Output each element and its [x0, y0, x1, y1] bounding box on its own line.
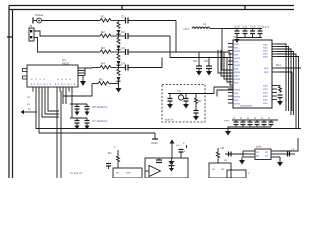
wire U2 right mid1 — [277, 67, 301, 69]
wire U4 in — [225, 153, 243, 155]
svg-text:111111: 111111 — [56, 89, 73, 93]
svg-text:C9: C9 — [204, 59, 208, 63]
ground ladder — [116, 84, 122, 93]
svg-text:Y1: Y1 — [177, 89, 181, 93]
module U1 — [23, 65, 79, 87]
U4 left pins — [243, 151, 255, 157]
box B opamp block — [145, 158, 188, 178]
wire bundle v3 — [224, 52, 233, 79]
wire U2 right bus r1 — [277, 44, 286, 111]
capacitor C14 — [278, 95, 283, 101]
capacitor C29 — [280, 152, 295, 157]
svg-text:C7 10uF/xx: C7 10uF/xx — [92, 119, 108, 123]
svg-text:C2: C2 — [121, 30, 125, 34]
svg-text:xxx: xxx — [234, 81, 239, 85]
border zone tick top 1 — [121, 6, 123, 10]
svg-text:+x: +x — [176, 143, 180, 147]
border frame top inner — [9, 9, 294, 11]
svg-text:xx xxx xx: xx xxx xx — [70, 171, 83, 175]
capacitor C22 — [262, 120, 267, 127]
svg-text:C1: C1 — [121, 15, 125, 19]
wire U2 right bus r6 — [277, 57, 299, 129]
svg-text:xx: xx — [28, 107, 32, 111]
box D — [227, 170, 246, 178]
svg-text:R2: R2 — [101, 30, 105, 34]
dashed box crystal — [162, 85, 205, 123]
power flag PF1 — [152, 133, 158, 139]
capacitor C18 — [234, 120, 239, 127]
capacitor C12 — [250, 29, 255, 38]
power arrow up — [170, 140, 175, 159]
wire U2 right bus r5 — [277, 54, 296, 129]
resistor R9 — [217, 148, 220, 163]
resistor R3 — [100, 50, 119, 54]
svg-text:J1: J1 — [29, 24, 33, 28]
svg-text:xxx: xxx — [264, 70, 269, 74]
capacitor C3 — [119, 49, 129, 55]
op-amp U3 — [145, 166, 161, 177]
svg-text:xxx: xxx — [263, 101, 268, 105]
ground U4 right — [277, 157, 283, 167]
capacitor C17 — [193, 105, 199, 121]
svg-text:C10: C10 — [234, 25, 240, 29]
capacitor C15 — [167, 97, 173, 109]
wire bus d1 — [36, 91, 301, 129]
border frame left outer — [8, 6, 10, 179]
wire bus d8 — [62, 91, 64, 96]
capacitor C13 — [258, 29, 263, 38]
U4 right pins — [271, 151, 280, 157]
wire row5 to caps — [63, 84, 92, 105]
capacitor C23 — [269, 120, 274, 127]
wire bus d5 — [48, 91, 59, 111]
resistor R8 — [117, 150, 120, 168]
capacitor C11 — [243, 29, 248, 38]
svg-text:R1: R1 — [101, 15, 105, 19]
svg-text:R5: R5 — [99, 78, 103, 82]
capacitor C20 — [248, 120, 253, 127]
wire bead down — [221, 29, 223, 51]
U1 bottom pin stubs — [33, 87, 72, 91]
wire bundle v4 — [227, 58, 233, 83]
border frame left inner — [12, 10, 14, 179]
svg-text:xxx: xxx — [126, 171, 131, 175]
wire bus d9 — [65, 91, 67, 104]
ladder resistor RL2 — [117, 36, 120, 44]
crystal Y1 — [178, 94, 183, 101]
wire U4 right up — [280, 138, 298, 151]
svg-text:R7: R7 — [198, 99, 202, 103]
svg-text:xx: xx — [212, 167, 216, 171]
ground C6 — [85, 112, 90, 116]
capacitor C2 — [119, 33, 129, 39]
wire row4 right — [128, 58, 162, 68]
U2 right pin stubs — [272, 44, 277, 100]
capacitor C1 — [119, 18, 129, 24]
U2 pin labels right column — [263, 43, 269, 106]
wire bundle v1 — [218, 50, 233, 73]
IC U4 — [255, 149, 271, 160]
capacitor C16 — [183, 94, 189, 109]
svg-text:C11: C11 — [242, 25, 248, 29]
U1 pin numbers — [32, 89, 73, 93]
wire row1 corner down — [175, 21, 177, 53]
wire bundle v5 — [230, 52, 233, 85]
ground U4 left — [239, 157, 245, 165]
wire crystal net — [168, 93, 214, 95]
resistor R2 — [100, 34, 119, 38]
svg-text:Rxx: Rxx — [276, 63, 282, 67]
svg-text:xx: xx — [221, 167, 225, 171]
svg-text:xx: xx — [27, 95, 31, 99]
capacitor C26 — [179, 150, 184, 159]
wire J1 pin2 to row3 — [34, 38, 100, 53]
ladder resistor RL1 — [117, 21, 120, 29]
svg-text:U4x: U4x — [256, 145, 262, 149]
wire U2 right bus r3 — [277, 49, 291, 115]
power cap rail bottom — [232, 120, 278, 127]
border zone tick left — [7, 36, 13, 38]
ground U1 — [80, 76, 86, 87]
capacitor C4 — [119, 65, 129, 71]
svg-text:L1: L1 — [203, 22, 207, 26]
capacitor C6 — [85, 104, 90, 112]
ground C8 — [85, 126, 90, 130]
wire U2 right bus r4 — [277, 52, 294, 116]
box A — [113, 168, 142, 178]
ladder resistor RL3 — [117, 52, 120, 60]
wire bus d4 — [45, 91, 59, 114]
svg-text:+3.3: +3.3 — [263, 25, 269, 29]
svg-text:+x: +x — [291, 147, 295, 151]
svg-text:xx: xx — [27, 102, 31, 106]
wire crystal loop2 — [170, 90, 233, 97]
net flag arrow left — [21, 110, 38, 114]
svg-text:Rx: Rx — [108, 151, 112, 155]
svg-text:C3: C3 — [121, 46, 125, 50]
ladder diode D4 — [117, 77, 121, 86]
svg-text:xx: xx — [256, 154, 260, 158]
svg-text:xx: xx — [224, 158, 228, 162]
U1 right pin comb — [78, 68, 85, 76]
resistor R4 — [92, 66, 119, 70]
svg-text:+3.3: +3.3 — [183, 27, 189, 31]
capacitor C24 — [106, 164, 111, 170]
svg-text:xxxxxxxx: xxxxxxxx — [240, 104, 253, 108]
capacitor C21 — [255, 120, 260, 127]
svg-text:GND: GND — [151, 141, 159, 145]
ground R6C14 — [277, 101, 283, 106]
wire U1 to row4 — [85, 67, 92, 70]
svg-text:U2: U2 — [233, 35, 237, 39]
diode D5 — [169, 158, 175, 172]
wire row1 — [41, 20, 100, 22]
capacitor C25 — [156, 158, 162, 163]
ground bypass — [235, 38, 240, 44]
resistor R6 — [277, 86, 282, 94]
capacitor C27 — [183, 141, 187, 148]
ladder diode D1 — [117, 30, 121, 36]
wire crystal up — [214, 87, 233, 94]
svg-text:R4: R4 — [101, 62, 105, 66]
wire row1 right — [128, 20, 176, 22]
capacitor C8 — [85, 118, 90, 126]
svg-text:C8: C8 — [193, 59, 197, 63]
wire bundle v6 — [222, 50, 233, 70]
ladder diode D2 — [117, 46, 121, 53]
svg-text:Power: Power — [35, 13, 44, 17]
resistor R7 — [195, 94, 198, 105]
capacitor C7 — [75, 118, 80, 126]
border zone tick top 2 — [244, 6, 246, 10]
ground cap rail — [225, 127, 236, 136]
wire bundle v2 — [221, 50, 233, 76]
wire U2 right bus r2 — [277, 47, 289, 112]
svg-text:R3: R3 — [101, 46, 105, 50]
crystal cap XC2 — [206, 58, 212, 76]
capacitor C19 — [241, 120, 246, 127]
ground C7 — [75, 126, 80, 130]
wire J1 pin1 to row2 — [34, 31, 100, 36]
wire caps row1 top — [70, 103, 87, 105]
svg-text:xx: xx — [116, 171, 120, 175]
svg-text:MOD: MOD — [62, 62, 70, 66]
U2 left pin stubs — [228, 44, 233, 104]
wire row2 corner down — [170, 36, 230, 58]
svg-text:xtal xx: xtal xx — [165, 118, 174, 122]
ladder resistor RL4 — [117, 68, 120, 76]
ladder diode D3 — [117, 61, 121, 68]
IC U2 — [233, 40, 272, 108]
resistor R1 — [100, 19, 119, 23]
border frame top outer — [9, 5, 294, 7]
wire row2 right — [128, 35, 170, 37]
capacitor C5 — [75, 104, 80, 112]
svg-text:C4: C4 — [121, 62, 125, 66]
wire bus d2 — [39, 91, 155, 133]
capacitor C28 — [229, 152, 232, 157]
U1 pin labels bottom — [31, 77, 75, 86]
U4 labels — [256, 150, 269, 158]
U2 bottom pin labels — [240, 104, 253, 108]
wire caps row2 top — [70, 117, 87, 119]
ground C5 — [75, 112, 80, 116]
wire bus d3 — [42, 91, 59, 117]
bypass cap rail — [225, 29, 262, 38]
ferrite bead L1 — [192, 27, 225, 29]
wire bus d6 — [56, 91, 58, 178]
U2 pin labels left column — [234, 42, 241, 106]
box C — [209, 163, 231, 178]
svg-text:111111: 111111 — [32, 89, 49, 93]
wire U2 right mid2 — [277, 72, 292, 111]
wire bus d10 — [71, 91, 73, 118]
svg-text:xxx: xxx — [263, 55, 268, 59]
crystal cap XC1 — [196, 52, 202, 76]
svg-text:C5 10uF/xx: C5 10uF/xx — [92, 105, 108, 109]
wire bus d7 — [60, 91, 62, 178]
connector J1 — [29, 28, 34, 41]
power port P1 — [33, 18, 41, 24]
svg-text:+xx: +xx — [224, 119, 229, 123]
resistor R5 — [92, 82, 119, 86]
svg-text:xx: xx — [265, 154, 269, 158]
svg-text:C12: C12 — [250, 25, 256, 29]
capacitor C10 — [235, 29, 240, 38]
wire row3 right — [128, 51, 230, 53]
